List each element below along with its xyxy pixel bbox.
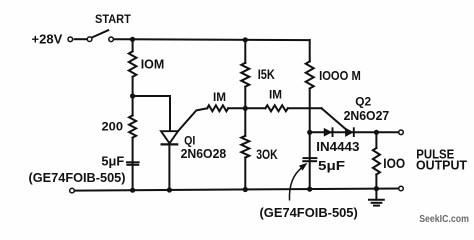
svg-text:200: 200 [102, 120, 124, 134]
svg-text:5μF: 5μF [318, 158, 345, 173]
svg-text:QI: QI [184, 136, 195, 148]
svg-text:IOOO M: IOOO M [319, 68, 361, 83]
svg-text:IN4443: IN4443 [316, 139, 359, 154]
svg-text:(GE74FOIB-505): (GE74FOIB-505) [260, 205, 358, 220]
svg-text:OUTPUT: OUTPUT [416, 158, 467, 173]
svg-text:IM: IM [213, 90, 226, 104]
svg-text:Q2: Q2 [355, 95, 371, 109]
svg-text:IOO: IOO [383, 156, 405, 171]
svg-text:IOM: IOM [141, 57, 165, 72]
svg-text:SeekIC.com: SeekIC.com [419, 213, 469, 225]
svg-text:IM: IM [269, 87, 282, 101]
svg-text:2N6O28: 2N6O28 [181, 147, 227, 161]
svg-text:START: START [95, 14, 131, 26]
svg-text:(GE74FOIB-505): (GE74FOIB-505) [29, 171, 126, 185]
svg-text:3OK: 3OK [256, 147, 278, 162]
svg-text:+28V: +28V [32, 32, 63, 46]
svg-text:2N6O27: 2N6O27 [344, 108, 390, 123]
svg-text:5μF: 5μF [101, 155, 124, 169]
svg-text:I5K: I5K [258, 67, 275, 82]
